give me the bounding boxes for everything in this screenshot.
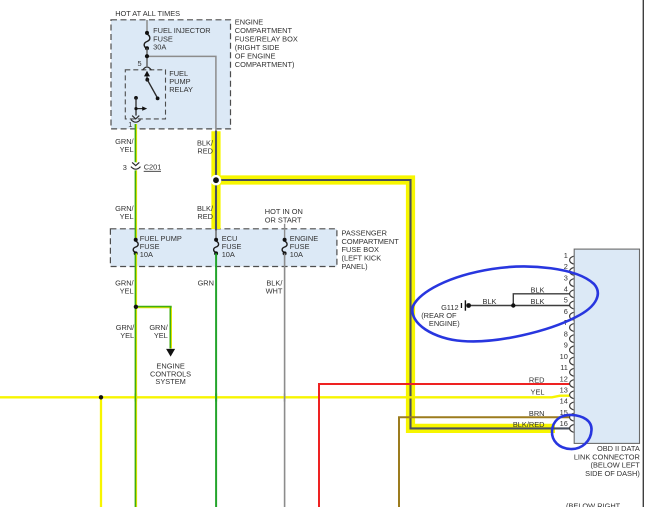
svg-text:BLK: BLK [531, 286, 545, 295]
svg-text:YEL: YEL [120, 212, 134, 221]
svg-text:BRN: BRN [529, 409, 545, 418]
svg-text:14: 14 [560, 397, 568, 406]
page border right edge [642, 0, 644, 507]
svg-text:30A: 30A [153, 43, 166, 52]
svg-text:YEL: YEL [120, 331, 134, 340]
svg-text:12: 12 [560, 374, 568, 383]
svg-text:11: 11 [560, 363, 568, 372]
svg-text:BLK: BLK [531, 297, 545, 306]
wire BLK/RED (highlighted): to ECU fuse and OBD pin 16 [216, 131, 570, 429]
relay coil side [134, 96, 138, 100]
svg-text:ENGINE): ENGINE) [429, 319, 460, 328]
svg-text:10: 10 [560, 352, 568, 361]
wire GRN/YEL: fuel pump fuse down, junction, to bottom [135, 253, 137, 507]
wire overlap: verticals crossing over YEL wire [135, 394, 137, 402]
svg-text:RED: RED [197, 212, 213, 221]
svg-text:SIDE OF DASH): SIDE OF DASH) [585, 469, 640, 478]
wire BLK: junction up to pin 4 [513, 294, 570, 306]
wire YEL: junction down to bottom [100, 397, 102, 507]
svg-text:C201: C201 [144, 162, 162, 171]
svg-text:9: 9 [564, 341, 568, 350]
wire: fuse to junction and relay pin 5 [146, 48, 148, 66]
OBD II connector pins 1-16 [570, 256, 574, 432]
fuse ECU 10A [214, 241, 219, 252]
wire BRN: to pin 15 [399, 417, 570, 507]
fuel pump relay box [125, 70, 165, 119]
arrow to engine controls system [166, 349, 175, 357]
node: junction at fuse output [145, 54, 149, 58]
fuse FUEL INJECTOR 30A [144, 34, 150, 49]
svg-text:6: 6 [564, 307, 568, 316]
svg-text:3: 3 [123, 163, 127, 172]
wire stub: hot in on or start feed [284, 224, 286, 239]
annotation: blue circle around OBD pin 16 [552, 415, 592, 449]
wire: branch to BLK/RED drop [147, 56, 216, 130]
engine compartment fuse/relay box [111, 20, 231, 129]
yellow highlighter band over BLK/RED wire [216, 131, 555, 428]
node: YEL junction [99, 395, 103, 399]
svg-text:16: 16 [560, 419, 568, 428]
connector C201 symbol [132, 162, 139, 165]
svg-text:1: 1 [564, 251, 568, 260]
svg-text:BLK/RED: BLK/RED [513, 420, 545, 429]
ground G112 symbol [461, 303, 462, 308]
svg-text:YEL: YEL [120, 145, 134, 154]
relay actuating arrow (right) [136, 108, 143, 110]
svg-text:RELAY: RELAY [169, 85, 193, 94]
svg-text:OR START: OR START [265, 215, 302, 224]
svg-text:10A: 10A [222, 250, 235, 259]
wire BLK: G112 to junction to pin 5 [471, 305, 570, 307]
svg-text:RED: RED [197, 147, 213, 156]
wire GRN: ECU fuse down to bottom [215, 253, 217, 507]
passenger compartment fuse box [110, 229, 337, 267]
svg-text:13: 13 [560, 386, 568, 395]
relay pin 5 terminal symbol [143, 67, 152, 70]
svg-text:(BELOW RIGHT: (BELOW RIGHT [566, 502, 621, 507]
relay contact arrow (up) [144, 71, 150, 77]
wire: battery feed into fuel injector fuse [146, 20, 148, 33]
svg-text:PANEL): PANEL) [342, 262, 368, 271]
svg-text:1: 1 [128, 120, 132, 129]
svg-text:5: 5 [137, 59, 141, 68]
node: BLK/RED junction with halo [211, 175, 222, 186]
svg-text:COMPARTMENT): COMPARTMENT) [235, 60, 295, 69]
svg-text:YEL: YEL [120, 287, 134, 296]
svg-text:BLK: BLK [483, 297, 497, 306]
node: GRN/YEL branch junction [134, 305, 138, 309]
svg-text:4: 4 [564, 285, 568, 294]
svg-text:SYSTEM: SYSTEM [155, 377, 185, 386]
svg-text:RED: RED [529, 376, 545, 385]
svg-text:YEL: YEL [531, 387, 545, 396]
svg-text:5: 5 [564, 296, 568, 305]
svg-text:YEL: YEL [154, 331, 168, 340]
wire RED: to pin 12 [319, 384, 570, 507]
wire BLK/WHT: engine fuse down to bottom [284, 253, 286, 507]
relay switch blade [145, 78, 149, 82]
svg-text:3: 3 [564, 273, 568, 282]
svg-text:GRN: GRN [198, 279, 214, 288]
svg-text:HOT AT ALL TIMES: HOT AT ALL TIMES [115, 9, 180, 18]
svg-text:WHT: WHT [266, 287, 283, 296]
wire GRN/YEL: relay pin 1 down to fuel pump fuse [135, 124, 137, 238]
svg-text:8: 8 [564, 329, 568, 338]
annotation: blue ellipse around G112 ground wires [412, 267, 597, 342]
relay pin 1 terminal symbol [132, 116, 139, 119]
wire YEL: across page to pin 13 [0, 396, 570, 398]
wire GRN/YEL: branch to engine controls system [136, 307, 171, 349]
svg-text:10A: 10A [140, 250, 153, 259]
fuse FUEL PUMP 10A [133, 241, 138, 252]
svg-text:10A: 10A [290, 250, 303, 259]
fuse ENGINE 10A [282, 241, 287, 252]
OBD II data link connector block [574, 249, 639, 443]
